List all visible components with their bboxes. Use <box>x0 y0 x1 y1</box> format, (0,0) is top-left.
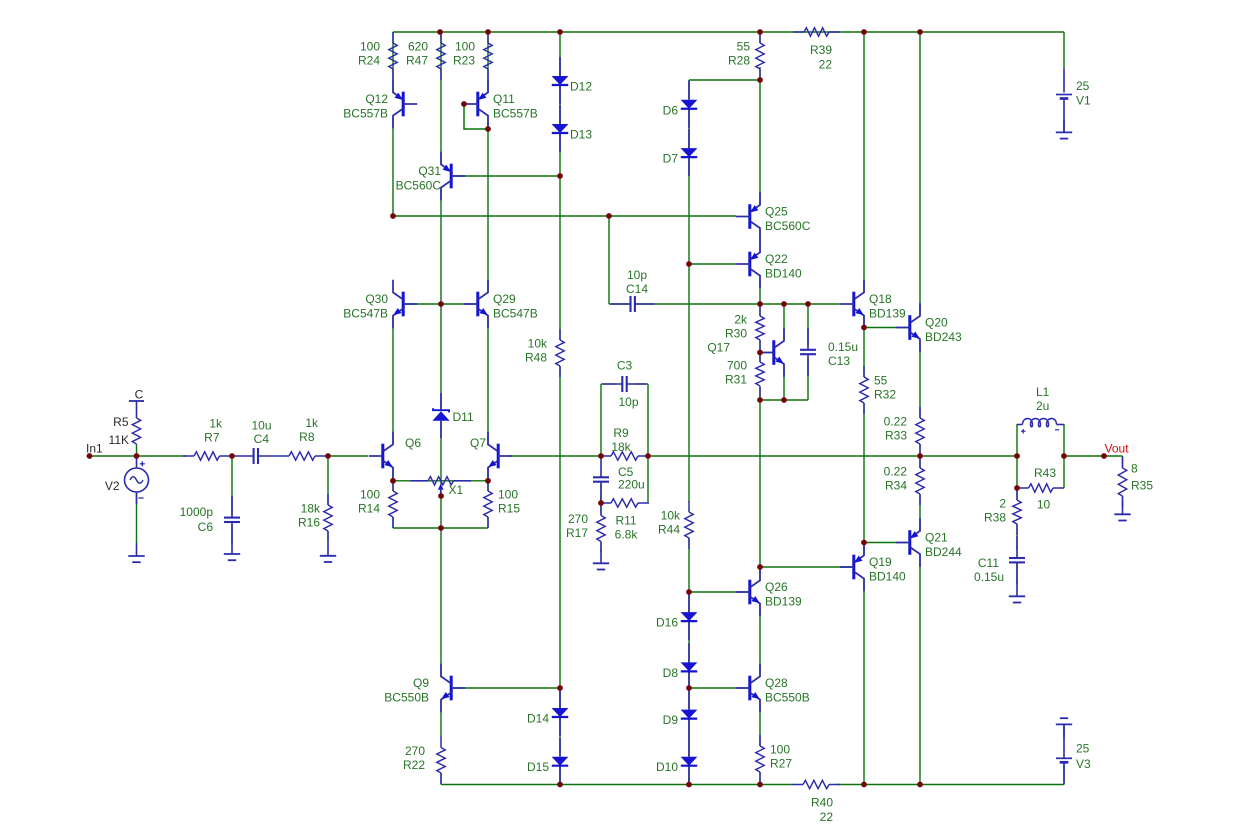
wire Q22 collector down <box>759 276 761 304</box>
wire R28 top lead <box>759 32 761 43</box>
junction <box>781 301 787 307</box>
svg-text:55: 55 <box>737 40 751 54</box>
wire base rail y216 to Q25 <box>393 215 736 217</box>
wire Q17 base lead <box>760 352 772 354</box>
capacitor C6 <box>224 496 240 544</box>
svg-text:C14: C14 <box>626 282 648 296</box>
svg-text:R24: R24 <box>358 54 380 68</box>
wire Q30/Q29 base join <box>404 303 477 305</box>
junction <box>757 29 763 35</box>
svg-text:11K: 11K <box>109 433 129 447</box>
wire Q9 base rail <box>453 687 560 689</box>
svg-text:Q28: Q28 <box>765 676 788 690</box>
svg-text:R27: R27 <box>770 757 792 771</box>
svg-text:D12: D12 <box>570 80 592 94</box>
potentiometer X1 <box>411 477 472 497</box>
resistor R35 <box>1118 457 1126 507</box>
transistor Q22 <box>736 240 802 289</box>
junction <box>390 213 396 219</box>
wire R31 bottom <box>759 388 761 400</box>
wire Q6 emitter to X1 <box>392 468 394 481</box>
wire Q17 emitter stub <box>783 365 785 401</box>
ground <box>320 543 336 562</box>
svg-text:V2: V2 <box>105 479 120 493</box>
svg-text:R40: R40 <box>811 796 833 810</box>
wire R11 right rail <box>647 456 649 503</box>
junction <box>757 782 763 788</box>
wire Q20 emitter to R33 <box>919 340 921 419</box>
svg-text:R11: R11 <box>615 514 636 528</box>
svg-text:R38: R38 <box>984 511 1006 525</box>
junction <box>134 453 140 459</box>
svg-text:22: 22 <box>820 810 834 824</box>
svg-text:D14: D14 <box>527 712 549 726</box>
wire V3 riser <box>1063 763 1065 785</box>
capacitor C5 <box>593 456 609 504</box>
resistor R31 <box>725 351 764 397</box>
svg-text:BD139: BD139 <box>869 307 906 321</box>
junction <box>437 29 443 35</box>
junction <box>917 782 923 788</box>
svg-text:R17: R17 <box>566 526 588 540</box>
svg-text:Q21: Q21 <box>925 531 948 545</box>
wire R17 to ground <box>600 542 602 552</box>
wire R22 to bottom rail <box>440 773 442 785</box>
resistor R39 <box>793 28 840 72</box>
resistor R32 <box>860 366 897 414</box>
wire C3 top left <box>601 383 615 385</box>
transistor Q29 <box>464 280 538 329</box>
svg-text:Q6: Q6 <box>405 436 421 450</box>
svg-text:8: 8 <box>1131 462 1138 476</box>
wire Q31 base to D13 column <box>453 175 560 177</box>
wire y400 R31 to C13 <box>760 399 808 401</box>
wire R32 top lead <box>863 328 865 378</box>
resistor R8 <box>278 452 326 460</box>
svg-text:0.22: 0.22 <box>884 465 908 479</box>
wire Q11 diode tie <box>464 104 488 129</box>
wire R23 column to Q11 emitter <box>487 32 489 92</box>
resistor R5 <box>109 401 141 447</box>
svg-text:25: 25 <box>1076 79 1090 93</box>
wire top positive rail <box>393 31 1064 33</box>
wire x760 node400 to node567 <box>759 400 761 567</box>
battery V1 <box>1056 68 1091 132</box>
wire R34 to Q21 collector <box>919 494 921 531</box>
resistor R11 <box>600 499 649 542</box>
resistor R40 <box>792 780 840 824</box>
wire R30 to Q17 base node <box>759 340 761 353</box>
svg-text:R32: R32 <box>874 388 896 402</box>
junction <box>438 301 444 307</box>
svg-text:D16: D16 <box>656 616 678 630</box>
svg-text:R22: R22 <box>403 758 425 772</box>
resistor R23 <box>453 32 492 80</box>
svg-text:10k: 10k <box>528 337 548 351</box>
svg-text:R43: R43 <box>1034 466 1056 480</box>
svg-text:C3: C3 <box>617 359 633 373</box>
junction <box>485 126 491 132</box>
junction <box>757 564 763 570</box>
wire output node to L1 <box>920 455 1017 457</box>
transistor Q30 <box>343 280 417 329</box>
wire D14 top stub <box>559 688 561 708</box>
svg-text:C11: C11 <box>978 556 999 570</box>
wire Q19 collector to bottom rail <box>863 579 865 785</box>
wire Q21 base lead <box>864 542 908 544</box>
junction <box>805 301 811 307</box>
wire Q29 emitter to Q7 collector <box>487 316 489 445</box>
wire main input <box>90 455 187 457</box>
capacitor C3 <box>603 359 647 410</box>
zener diode D11 <box>432 393 474 438</box>
wire R28 to D6 tap <box>759 67 761 80</box>
svg-text:R33: R33 <box>885 429 907 443</box>
diode D10 <box>656 738 697 785</box>
resistor R9 <box>600 426 649 460</box>
svg-text:18k: 18k <box>611 440 631 454</box>
wire X1 bottom rail <box>393 527 488 529</box>
wire D9-D10 <box>688 719 690 757</box>
junction <box>757 301 763 307</box>
junction <box>598 453 604 459</box>
svg-text:270: 270 <box>568 512 588 526</box>
junction <box>686 261 692 267</box>
svg-text:Q29: Q29 <box>493 292 516 306</box>
svg-text:BD243: BD243 <box>925 330 962 344</box>
svg-text:BC550B: BC550B <box>384 691 429 705</box>
svg-text:1k: 1k <box>305 416 319 430</box>
transistor Q26 <box>736 568 802 617</box>
svg-text:100: 100 <box>360 40 380 54</box>
node Vout <box>1101 442 1129 459</box>
wire D8 to Q28 base node <box>688 671 690 688</box>
svg-text:R35: R35 <box>1131 479 1153 493</box>
junction <box>485 478 491 484</box>
wire Q19 base rail <box>760 566 852 568</box>
diode D15 <box>527 738 568 785</box>
svg-text:D15: D15 <box>527 760 549 774</box>
junction <box>1014 485 1020 491</box>
resistor R28 <box>728 32 764 80</box>
junction <box>1014 453 1020 459</box>
svg-text:V1: V1 <box>1076 94 1091 108</box>
wire Q7 base to R9 <box>510 455 601 457</box>
svg-text:0.22: 0.22 <box>884 415 908 429</box>
wire Q26 collector stub <box>759 567 761 580</box>
svg-text:C: C <box>135 388 144 402</box>
capacitor C14 <box>611 268 655 312</box>
svg-text:C13: C13 <box>828 354 850 368</box>
svg-text:Q18: Q18 <box>869 292 892 306</box>
svg-text:Vout: Vout <box>1105 442 1130 456</box>
junction <box>1061 453 1067 459</box>
wire C14 tap column <box>608 216 610 304</box>
junction <box>461 101 467 107</box>
wire bottom rail left <box>441 784 793 786</box>
junction <box>390 478 396 484</box>
transistor Q18 <box>840 280 906 329</box>
junction <box>557 29 563 35</box>
wire Q26 base lead <box>689 591 748 593</box>
capacitor C13 <box>800 328 816 376</box>
wire R24 column upper <box>392 32 394 92</box>
svg-text:6.8k: 6.8k <box>615 528 639 542</box>
wire Q18 collector column <box>863 32 865 292</box>
battery V3 <box>1056 724 1091 784</box>
inductor L1 <box>1017 385 1064 434</box>
junction <box>438 493 444 499</box>
svg-text:100: 100 <box>455 40 475 54</box>
ground <box>1056 718 1072 737</box>
resistor R24 <box>358 32 397 80</box>
diode D8 <box>663 643 698 690</box>
svg-text:10: 10 <box>1037 498 1051 512</box>
wire R48 bottom long column <box>559 366 561 688</box>
wire R44 bottom to Q26 base node <box>688 538 690 592</box>
wire Q18 emitter to Q20 base <box>864 327 908 329</box>
wire C13 bottom stub <box>807 357 809 400</box>
wire Q30 emitter to Q6 collector <box>392 316 394 445</box>
wire C3 loop right <box>647 384 649 456</box>
wire Q11 collector stub <box>487 116 489 129</box>
svg-text:D11: D11 <box>453 410 474 424</box>
capacitor C11 <box>1009 536 1025 584</box>
transistor Q20 <box>896 303 962 352</box>
wire L1 loop left <box>1016 424 1018 488</box>
wire C14 left lead <box>609 303 630 305</box>
svg-text:100: 100 <box>498 488 518 502</box>
svg-text:R15: R15 <box>498 502 520 516</box>
wire R47 column to Q31 emitter <box>440 32 442 164</box>
svg-text:V3: V3 <box>1076 757 1091 771</box>
svg-text:R7: R7 <box>204 431 220 445</box>
wire R35 to ground <box>1122 496 1124 503</box>
resistor R16 <box>298 494 332 542</box>
svg-text:X1: X1 <box>449 483 464 497</box>
svg-text:Q30: Q30 <box>365 292 388 306</box>
wire Q9 emitter to R22 <box>440 701 442 737</box>
svg-text:55: 55 <box>874 374 888 388</box>
svg-text:10u: 10u <box>251 419 271 433</box>
svg-text:R23: R23 <box>453 54 475 68</box>
svg-text:R48: R48 <box>525 351 547 365</box>
wire C5 bottom node <box>600 484 602 503</box>
wire R33 to output node <box>919 444 921 456</box>
svg-text:Q20: Q20 <box>925 316 948 330</box>
svg-text:620: 620 <box>408 40 428 54</box>
wire D12-D13 <box>559 85 561 124</box>
ground <box>224 541 240 560</box>
wire C3 loop left <box>600 384 602 456</box>
wire R31 top lead <box>759 353 761 363</box>
wire D7 down to Q22 base node <box>688 157 690 264</box>
ground <box>1056 119 1072 138</box>
junction <box>438 525 444 531</box>
wire R15 body span <box>487 481 489 491</box>
junction <box>325 453 331 459</box>
svg-text:R8: R8 <box>299 430 315 444</box>
svg-text:Q11: Q11 <box>493 92 515 106</box>
wire V2 top lead <box>136 445 138 456</box>
svg-text:Q25: Q25 <box>765 205 788 219</box>
wire D6 tap horizontal <box>689 79 760 81</box>
junction <box>557 782 563 788</box>
junction <box>861 29 867 35</box>
wire R34 top lead <box>919 456 921 468</box>
wire C3 top right <box>634 383 648 385</box>
resistor R34 <box>884 457 925 505</box>
svg-text:2u: 2u <box>1036 399 1049 413</box>
svg-text:D6: D6 <box>663 103 679 117</box>
wire R9 to output stage <box>648 455 920 457</box>
svg-text:1k: 1k <box>209 417 223 431</box>
svg-text:D13: D13 <box>570 128 592 142</box>
svg-text:Q26: Q26 <box>765 580 788 594</box>
ground <box>128 543 144 562</box>
transistor Q7 <box>487 432 512 481</box>
resistor R30 <box>725 305 764 351</box>
svg-text:R9: R9 <box>613 426 629 440</box>
svg-text:Q9: Q9 <box>413 676 429 690</box>
svg-text:BC557B: BC557B <box>493 107 538 121</box>
transistor Q21 <box>896 518 962 567</box>
wire R16 top lead <box>327 456 329 505</box>
wire Q22 base lead <box>689 263 736 265</box>
svg-text:D9: D9 <box>663 713 679 727</box>
wire D9 top stub <box>688 688 690 710</box>
svg-text:R30: R30 <box>725 327 747 341</box>
svg-text:220u: 220u <box>618 478 645 492</box>
wire R16 to ground <box>327 531 329 543</box>
wire Q31 collector down <box>440 188 442 304</box>
svg-text:In1: In1 <box>86 441 103 455</box>
svg-text:0.15u: 0.15u <box>974 570 1004 584</box>
wire D6 top stub <box>688 80 690 99</box>
svg-text:L1: L1 <box>1036 385 1050 399</box>
transistor Q9 <box>384 664 465 713</box>
transistor Q6 <box>369 432 394 481</box>
wire R14 body span <box>392 481 394 491</box>
svg-text:C6: C6 <box>198 520 214 534</box>
wire V1 drop <box>1063 32 1065 68</box>
wire L1 loop right <box>1063 424 1065 488</box>
wire Q28 base lead <box>689 687 748 689</box>
svg-text:Q7: Q7 <box>470 436 486 450</box>
svg-text:10p: 10p <box>618 395 638 409</box>
transistor Q17 <box>760 328 785 377</box>
resistor R27 <box>756 735 793 783</box>
svg-text:10p: 10p <box>627 268 647 282</box>
wire Q28 emitter to R27 <box>759 700 761 746</box>
svg-text:Q12: Q12 <box>365 92 388 106</box>
wire C6 top lead <box>231 456 233 515</box>
svg-text:R5: R5 <box>113 415 129 429</box>
junction <box>606 213 612 219</box>
junction <box>781 397 787 403</box>
svg-text:100: 100 <box>360 488 380 502</box>
svg-text:R31: R31 <box>725 373 747 387</box>
svg-text:R39: R39 <box>810 43 832 57</box>
wire Q11 collector down to Q29 <box>487 129 489 293</box>
svg-text:BD140: BD140 <box>765 267 802 281</box>
wire R38 to C11 <box>1016 524 1018 550</box>
source V2 <box>105 456 149 504</box>
svg-text:700: 700 <box>727 359 747 373</box>
junction <box>229 453 235 459</box>
junction <box>686 685 692 691</box>
wire R38 top lead <box>1016 488 1018 500</box>
junction <box>686 589 692 595</box>
resistor R48 <box>525 329 564 377</box>
wire D6-D7 <box>688 109 690 148</box>
wire x689 column mid <box>688 264 690 502</box>
wire Q26 emitter to Q28 collector <box>759 604 761 676</box>
transistor Q28 <box>736 664 810 713</box>
svg-text:BC547B: BC547B <box>343 307 388 321</box>
svg-text:D7: D7 <box>663 152 679 166</box>
resistor R7 <box>183 452 231 460</box>
transistor Q12 <box>343 80 417 129</box>
wire C13 top stub <box>807 304 809 347</box>
wire Q12 collector to node <box>392 116 394 216</box>
resistor R33 <box>884 407 925 455</box>
wire D11 column top <box>440 304 442 408</box>
diode D6 <box>663 81 698 128</box>
svg-text:10k: 10k <box>661 509 681 523</box>
svg-text:BD139: BD139 <box>765 595 802 609</box>
junction <box>861 782 867 788</box>
svg-text:BD140: BD140 <box>869 570 906 584</box>
resistor R47 <box>406 32 445 80</box>
svg-text:2: 2 <box>999 497 1006 511</box>
wire C11 to ground <box>1016 562 1018 584</box>
svg-text:D10: D10 <box>656 760 678 774</box>
wire Q7 emitter to X1 <box>487 468 489 481</box>
svg-text:R47: R47 <box>406 54 428 68</box>
resistor R38 <box>984 489 1021 535</box>
resistor R14 <box>358 480 397 528</box>
wire R17 top lead <box>600 503 602 515</box>
ground <box>1114 501 1130 520</box>
svg-text:R34: R34 <box>885 479 907 493</box>
junction <box>485 29 491 35</box>
diode D16 <box>656 593 697 640</box>
resistor R22 <box>403 737 445 785</box>
wire R30 top lead <box>759 304 761 316</box>
wire D15 to bottom rail <box>559 766 561 785</box>
wire X1 wiper to bottom rail <box>440 490 442 528</box>
svg-text:22: 22 <box>819 58 833 72</box>
junction <box>861 325 867 331</box>
resistor R43 <box>1018 484 1065 492</box>
transistor Q19 <box>840 543 906 592</box>
wire Q20 collector column <box>919 32 921 316</box>
wire V2 bottom to ground <box>136 492 138 544</box>
transistor Q31 <box>396 152 466 201</box>
transistor Q25 <box>736 192 811 241</box>
resistor R17 <box>566 505 605 553</box>
junction <box>557 685 563 691</box>
svg-text:BC547B: BC547B <box>493 307 538 321</box>
svg-text:1000p: 1000p <box>180 505 214 519</box>
wire D16 top stub <box>688 592 690 612</box>
junction <box>686 782 692 788</box>
junction <box>645 453 651 459</box>
wire X1 top rail <box>393 480 488 482</box>
junction <box>917 453 923 459</box>
svg-text:R28: R28 <box>728 54 750 68</box>
